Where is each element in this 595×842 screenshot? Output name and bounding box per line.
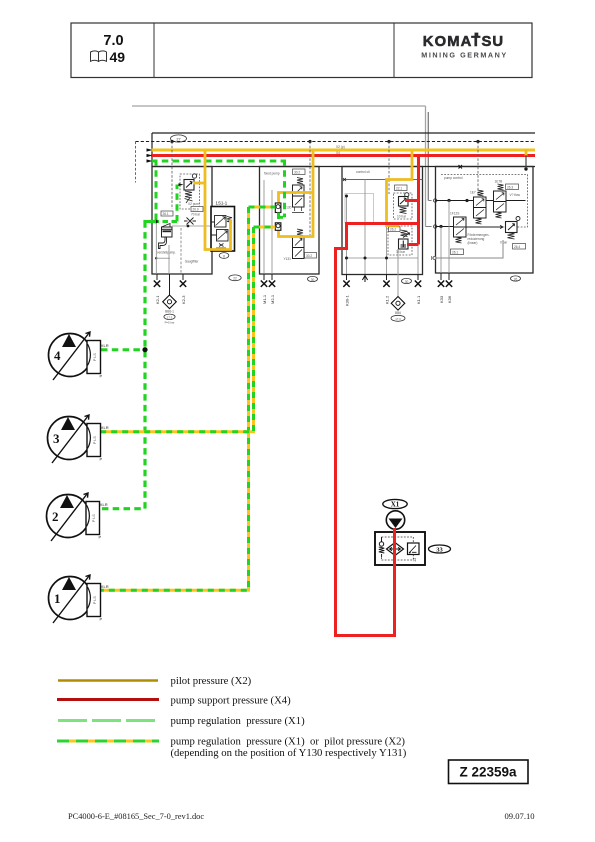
relief valve 22.1 dashed enclosure: [394, 193, 413, 219]
svg-text:control oil: control oil: [356, 170, 370, 174]
svg-text:Y131: Y131: [284, 257, 292, 261]
legend pilot pressure line: [58, 679, 158, 682]
svg-text:PC4000-6-E_#08165_Sec_7-0_rev1: PC4000-6-E_#08165_Sec_7-0_rev1.doc: [68, 812, 204, 821]
svg-text:K2-1: K2-1: [155, 295, 160, 304]
svg-text:Z 22359a: Z 22359a: [459, 765, 517, 780]
svg-text:20.0: 20.0: [193, 208, 199, 212]
stub K1.1: [415, 274, 421, 304]
yellow stub to relief valve 20.1: [194, 182, 206, 185]
svg-text:P LS: P LS: [93, 353, 97, 361]
pressure valve 26.4 pilot circle: [516, 217, 520, 221]
label box 20.1: [161, 211, 173, 216]
svg-text:4: 4: [54, 348, 61, 363]
svg-text:X2 pum: X2 pum: [188, 202, 199, 206]
combined wire to check lower: [254, 226, 276, 229]
legend pump regulation line: [58, 719, 157, 722]
svg-text:30: 30: [311, 278, 315, 282]
yellow loop in block2: [279, 152, 314, 237]
unit dashed links: [382, 537, 414, 560]
pilot pressure bus X2 yellow: [151, 149, 535, 152]
label box 26.3: [506, 184, 519, 190]
variable throttle: [184, 218, 196, 225]
measuring unit box 33: [375, 532, 425, 565]
svg-text:XLR: XLR: [101, 584, 109, 589]
svg-text:10 bar: 10 bar: [397, 215, 407, 219]
block4 top edge junction dot: [524, 167, 527, 170]
valve 1E7 springs: [478, 190, 484, 196]
red branch to valve 22.2: [407, 243, 419, 246]
svg-text:pump regulation pressure (X1): pump regulation pressure (X1) or pilot p…: [171, 736, 406, 748]
block 4 outline (pump control): [436, 167, 534, 274]
X1 port oval: [383, 499, 407, 508]
label box 22.2: [389, 227, 401, 232]
svg-text:K30-1: K30-1: [345, 295, 350, 306]
block3 drain gallery: [347, 257, 419, 259]
stub K2-3: [180, 274, 186, 304]
block1 inner gallery lines: [155, 222, 157, 274]
green drop from bus to Y130 checks: [283, 160, 286, 218]
svg-text:XLR: XLR: [101, 425, 109, 430]
block2 label box lower: [305, 253, 317, 259]
svg-text:K1.1: K1.1: [416, 295, 421, 304]
pump 2: [47, 493, 108, 541]
svg-text:P LS: P LS: [93, 436, 97, 444]
relief valve 22.1 pilot circle: [405, 193, 409, 197]
oval label 30 block2: [308, 276, 318, 281]
svg-text:verstellpump.: verstellpump.: [157, 251, 176, 255]
svg-text:fixed pump: fixed pump: [264, 172, 280, 176]
block2 gallery lines: [263, 180, 265, 274]
solenoid valve Y131 spring: [297, 229, 303, 236]
solenoid valve Y130 body: [293, 185, 305, 207]
block3 inner frame: [345, 194, 374, 224]
solenoid valve Y130 spring: [297, 178, 303, 185]
svg-text:BB6-1: BB6-1: [165, 310, 174, 314]
svg-text:26.3: 26.3: [507, 185, 513, 189]
svg-text:1E7: 1E7: [470, 191, 476, 195]
svg-text:K2-3: K2-3: [181, 295, 186, 304]
block2 label box: [293, 169, 306, 175]
stub K36: [446, 273, 452, 303]
schematic top frame: [152, 132, 535, 134]
svg-text:pump support pressure (X4): pump support pressure (X4): [171, 695, 292, 707]
block4 centerline: [477, 142, 479, 197]
valve 1F12S body: [454, 217, 467, 237]
svg-text:Saugfilter: Saugfilter: [185, 260, 199, 264]
oval label 22 block1: [229, 275, 241, 281]
gray wire to BB6: [397, 249, 399, 297]
svg-text:22: 22: [233, 277, 237, 281]
wire gallery in block1: [172, 225, 211, 227]
valve 1E7 body: [474, 197, 487, 218]
stub BB6-1 test point: [163, 274, 177, 325]
relief valve 20.1 body: [184, 180, 194, 191]
block 2 outline (fixed pump): [260, 167, 320, 275]
reducing valve 22.2 body: [399, 239, 409, 249]
1S1-1 inner valve lower: [217, 230, 229, 242]
check valve lower: [275, 223, 281, 231]
swash lever: [159, 237, 167, 249]
label box 26.4: [513, 244, 526, 250]
yellow pilot wire block3: [387, 152, 413, 226]
1S1-1 inner valve upper: [215, 216, 227, 228]
legend pump support line: [57, 698, 159, 701]
label box right: [191, 207, 203, 212]
block3 centerline: [388, 142, 390, 195]
yellow pilot wire block1 riser: [205, 152, 231, 250]
svg-text:1S1-1: 1S1-1: [216, 201, 228, 206]
svg-text:MINING GERMANY: MINING GERMANY: [421, 51, 507, 60]
header frame: [71, 23, 532, 78]
pump 4: [49, 332, 109, 380]
block2 centerline: [309, 142, 311, 236]
svg-text:1E7B: 1E7B: [495, 180, 503, 184]
svg-text:P: P: [100, 457, 103, 462]
svg-text:7.0: 7.0: [103, 33, 123, 49]
svg-text:30: 30: [405, 280, 409, 284]
yellow bus end drop to pump control: [525, 149, 528, 156]
unit switch box: [408, 543, 420, 555]
svg-text:K1.2: K1.2: [385, 295, 390, 304]
block4 dashed enclosure: [441, 175, 528, 228]
svg-text:(linear): (linear): [468, 241, 478, 245]
svg-text:XLR: XLR: [101, 343, 109, 348]
vent arrow block3: [362, 276, 367, 283]
block 1 outline (main pump 1+2): [152, 167, 212, 275]
unit filter spring branch: [381, 537, 383, 542]
valve 1F12S spring: [456, 237, 462, 243]
red support wire into X1 port: [360, 528, 395, 636]
combined riser to pump1: [101, 207, 249, 590]
svg-text:M2-1: M2-1: [270, 294, 275, 304]
svg-text:26.1: 26.1: [452, 250, 458, 254]
dashed drop at left: [135, 142, 137, 183]
svg-text:K33: K33: [439, 295, 444, 303]
svg-text:70 bar: 70 bar: [191, 213, 201, 217]
svg-text:pump regulation pressure (X1): pump regulation pressure (X1): [171, 715, 306, 727]
svg-text:P: P: [100, 617, 103, 622]
pressure valve 26.4 spring: [508, 233, 515, 240]
block1 relief valve dashed enclosure: [180, 174, 200, 209]
svg-text:22.1: 22.1: [396, 186, 402, 190]
1S1-1 drain marks: [216, 244, 226, 249]
svg-text:1F12S: 1F12S: [450, 212, 459, 216]
combined wire to check upper: [249, 206, 276, 209]
relief valve 20.1 pilot circle: [192, 174, 196, 178]
tank return dashed bus: [136, 141, 536, 143]
gray reference line top: [132, 105, 426, 107]
oval label 30 block3: [402, 278, 412, 283]
bus start arrows: [147, 148, 153, 151]
wire gray A to 1F12S: [426, 226, 432, 228]
stub K2-1: [154, 274, 160, 304]
svg-text:22: 22: [413, 558, 417, 562]
svg-text:XLR: XLR: [100, 502, 108, 507]
stub K30-1: [343, 274, 349, 306]
svg-text:27: 27: [176, 137, 180, 141]
svg-text:M1-1: M1-1: [262, 294, 267, 304]
svg-text:X1: X1: [391, 501, 400, 509]
pilot arrow into valve: [179, 183, 184, 186]
stub K1.2: [383, 274, 389, 304]
svg-text:P: P: [99, 535, 102, 540]
junction dot pump4: [142, 347, 147, 352]
logo T mark: [475, 33, 479, 37]
svg-text:pump control: pump control: [444, 176, 463, 180]
pilot valve 1S1-1 box: [211, 207, 235, 252]
stub M2: [269, 274, 275, 304]
stub K33: [438, 273, 444, 303]
svg-text:BB6: BB6: [395, 311, 401, 315]
1S1-1 spring: [227, 217, 232, 223]
pump support bus X4 red: [151, 154, 535, 157]
svg-text:V? flow: V? flow: [510, 193, 521, 197]
unit flow diamond: [387, 543, 404, 556]
solenoid valve Y131 body: [293, 237, 305, 259]
Y130 connector marks: [292, 207, 304, 213]
svg-text:3: 3: [53, 431, 60, 446]
svg-text:P LS: P LS: [93, 596, 97, 604]
main pump swash group: [162, 224, 171, 228]
svg-text:2: 2: [52, 509, 59, 524]
legend combined regulation/pilot line: [57, 740, 159, 743]
svg-text:pilot pressure (X2): pilot pressure (X2): [171, 675, 252, 687]
green riser pump2/pump4: [101, 222, 157, 509]
svg-text:P=5 bar: P=5 bar: [165, 321, 175, 325]
pump regulation bus X1 green dashed: [151, 160, 286, 163]
relief valve 22.1 body: [399, 197, 409, 207]
wire into 26.4: [454, 225, 504, 228]
svg-text:30.2: 30.2: [306, 254, 312, 258]
combined riser to pump3: [101, 227, 254, 432]
svg-text:X2 (p): X2 (p): [336, 145, 345, 149]
svg-text:17.3: 17.3: [395, 317, 401, 321]
reducing valve 22.2 spring: [401, 230, 408, 237]
pressure valve 26.4 body: [506, 222, 518, 233]
relief valve spring: [185, 191, 192, 198]
svg-text:17.3: 17.3: [167, 316, 173, 320]
stub BB6 test point: [391, 297, 405, 322]
red support wire riser to control oil block: [417, 156, 420, 245]
stub M1: [261, 274, 267, 304]
block 3 outline (control oil): [342, 167, 423, 275]
svg-text:P LS: P LS: [92, 514, 96, 522]
svg-text:8: 8: [223, 254, 225, 258]
drawing number box Z 22359a: [449, 760, 529, 784]
valve 1E7B springs: [498, 184, 504, 190]
svg-text:K36: K36: [447, 295, 452, 303]
oval label 27: [171, 135, 187, 142]
svg-text:33: 33: [436, 547, 443, 554]
red branch main X4: [345, 222, 419, 225]
valve 1E7B body: [494, 191, 507, 212]
X1 check cone symbol: [386, 511, 404, 529]
block4 top edge x mark: [459, 165, 463, 169]
svg-text:KOMATSU: KOMATSU: [423, 34, 504, 50]
reducing valve 22.2 dashed enclosure: [388, 226, 412, 255]
block1 centerline: [171, 142, 173, 210]
label box 26.1: [451, 249, 464, 255]
oval label 26 block4: [511, 276, 521, 281]
svg-text:1: 1: [54, 591, 61, 606]
label box 22.1: [395, 185, 408, 191]
svg-text:26.2: 26.2: [390, 228, 396, 232]
svg-text:0 bar: 0 bar: [500, 241, 508, 245]
port oval 33: [429, 545, 451, 553]
check valve upper: [275, 203, 281, 213]
pump 3: [48, 415, 109, 463]
red branch to relief valve 22.1: [405, 199, 419, 202]
red support wire down (upper part): [336, 222, 361, 636]
wire gray B to 1E7: [428, 200, 431, 202]
block4 lower gallery: [432, 240, 504, 258]
relief valve 22.1 spring: [400, 207, 407, 214]
block4 stub verticals: [440, 227, 442, 274]
green regulation wire in block1: [155, 160, 158, 222]
svg-text:(depending on the position of: (depending on the position of Y130 respe…: [171, 747, 407, 759]
svg-text:26.1: 26.1: [163, 212, 169, 216]
svg-text:09.07.10: 09.07.10: [505, 811, 535, 821]
block3 gallery verticals: [346, 196, 348, 274]
1S1-1 oval label: [219, 253, 229, 259]
svg-text:30.2: 30.2: [294, 170, 300, 174]
svg-text:P: P: [100, 374, 103, 379]
svg-text:35 bar: 35 bar: [396, 250, 406, 254]
book icon: [91, 51, 107, 61]
junction dots on dashed bus: [170, 140, 173, 143]
pump 1: [49, 575, 109, 623]
svg-text:26.4: 26.4: [514, 245, 520, 249]
gray wire A down to pump control: [425, 106, 427, 227]
svg-text:49: 49: [110, 49, 126, 65]
block row top rail: [152, 166, 535, 168]
gray wire B down to pump control: [427, 112, 429, 201]
block3 top gallery: [342, 179, 423, 181]
pump4 regulation wire: [101, 348, 145, 351]
svg-text:26: 26: [514, 277, 518, 281]
